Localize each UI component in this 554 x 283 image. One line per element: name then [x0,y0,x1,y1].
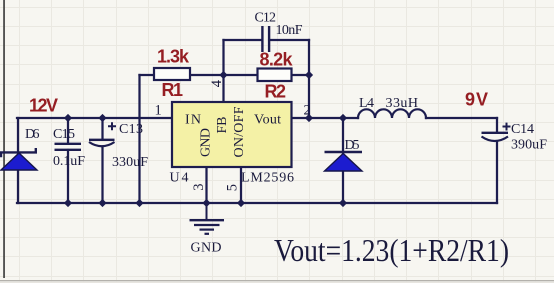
svg-text:4: 4 [209,79,225,87]
svg-text:IN: IN [185,113,201,128]
svg-text:12V: 12V [29,96,58,116]
svg-text:390uF: 390uF [511,138,547,153]
svg-text:1.3k: 1.3k [157,47,190,67]
svg-text:R1: R1 [162,80,184,100]
svg-text:R2: R2 [265,82,287,102]
svg-text:9V: 9V [465,90,488,110]
svg-text:LM2596: LM2596 [241,171,294,186]
svg-text:0.1uF: 0.1uF [53,154,85,169]
svg-text:C12: C12 [255,11,277,26]
svg-text:2: 2 [304,103,311,119]
svg-text:Vout=1.23(1+R2/R1): Vout=1.23(1+R2/R1) [274,232,509,268]
svg-text:C15: C15 [53,127,75,142]
svg-text:D5: D5 [345,138,360,153]
svg-text:L4: L4 [359,96,374,111]
svg-text:C13: C13 [119,122,143,137]
svg-text:33uH: 33uH [386,96,419,111]
svg-text:GND: GND [191,241,222,256]
svg-text:D6: D6 [25,127,40,142]
svg-text:5: 5 [225,184,241,191]
svg-text:ON/OFF: ON/OFF [232,106,247,157]
svg-text:330uF: 330uF [112,155,148,170]
svg-text:1: 1 [155,103,162,119]
svg-text:GND: GND [199,128,214,157]
svg-text:FB: FB [215,117,230,134]
svg-text:8.2k: 8.2k [260,50,294,70]
svg-text:10nF: 10nF [276,23,303,38]
svg-text:U4: U4 [170,171,189,186]
svg-text:3: 3 [191,184,207,191]
svg-text:C14: C14 [511,122,534,137]
svg-text:Vout: Vout [254,113,281,128]
